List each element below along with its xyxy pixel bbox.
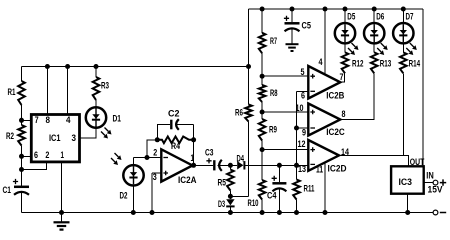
junction C5 top on rail [290, 7, 295, 12]
wire rail to D6 [373, 9, 375, 23]
junction left rail meets vertical [246, 64, 251, 69]
svg-text:12: 12 [298, 139, 306, 149]
wire D7 to R14 [402, 43, 404, 52]
wire R4 left up to C2 [157, 125, 170, 140]
wire IC2C output to R13 [340, 73, 374, 119]
resistor R1 [18, 81, 25, 105]
op-amp IC2C [308, 104, 340, 136]
wire top positive rail [249, 8, 423, 10]
svg-text:IC2D: IC2D [328, 164, 347, 174]
wire D1 to IC1 pin 3 [80, 128, 97, 138]
junction D6 on top rail [372, 7, 377, 12]
wire D6 to R13 [373, 43, 375, 52]
svg-text:D7: D7 [406, 12, 414, 22]
wire node to D4 [230, 164, 237, 166]
C3 + polarity mark [206, 158, 211, 163]
wire right rail down to IC3 [422, 9, 424, 166]
wire IC2B pin 4 to top rail [324, 9, 326, 74]
+ supply mark [440, 179, 446, 185]
IC2D + input mark [310, 147, 315, 152]
D5 emission arrows [348, 43, 359, 55]
junction pin 1 on bottom rail [59, 210, 64, 215]
svg-text:8: 8 [342, 109, 346, 119]
wire R2 to C1 [21, 146, 23, 187]
svg-text:5: 5 [301, 67, 305, 77]
IC3 box [391, 166, 424, 193]
IC2B - input mark [310, 90, 315, 92]
wire IC1 pin 6 [22, 155, 32, 157]
svg-text:7: 7 [35, 115, 39, 125]
svg-text:R5: R5 [218, 178, 227, 188]
wire rail to D7 [402, 9, 404, 23]
svg-text:R3: R3 [101, 81, 109, 91]
wire D5 to R12 [344, 43, 346, 52]
capacitor C4 [272, 183, 286, 191]
wire R11 to bottom rail [296, 200, 298, 213]
svg-text:R11: R11 [304, 184, 315, 194]
wire pin 3 to bottom rail [151, 173, 153, 213]
- supply mark [440, 212, 446, 214]
IC2D - input mark [310, 163, 315, 165]
D6 emission arrows [377, 43, 388, 55]
junction D5 on top rail [343, 7, 348, 12]
wire IC1 pin 8 to rail [46, 67, 48, 115]
wire node to R5 [229, 165, 231, 169]
svg-text:OUT: OUT [410, 157, 425, 167]
wire IC2C pin 9 input [297, 127, 309, 129]
junction R11 on bottom rail [294, 210, 299, 215]
+ terminal circle [433, 180, 438, 185]
wire R8 to R9 [261, 102, 263, 119]
svg-text:15V: 15V [428, 185, 443, 195]
D1 emission arrows [101, 128, 112, 139]
capacitor C2 [171, 119, 179, 130]
svg-text:R13: R13 [380, 59, 392, 69]
wire IC3 IN to + terminal [424, 182, 433, 184]
svg-text:D5: D5 [347, 12, 355, 22]
LED D1 infra-red emitting [86, 107, 106, 127]
resistor R11 [293, 180, 300, 200]
wire rail to C5 [291, 9, 293, 22]
resistor R5 [227, 170, 234, 191]
wire IC2B pin 6 input [297, 90, 309, 92]
LED D5 [335, 23, 355, 43]
junction R9/R10 node - IC2D pin 12 [260, 147, 265, 152]
wire D3 to bottom rail [229, 207, 231, 213]
svg-text:R12: R12 [352, 59, 364, 69]
wire node to C4 [278, 165, 280, 182]
svg-text:R14: R14 [409, 59, 421, 69]
resistor R3 [93, 77, 100, 100]
LED D6 [364, 23, 384, 43]
svg-text:R1: R1 [8, 87, 16, 97]
svg-text:D3: D3 [218, 199, 225, 209]
resistor R7 [259, 33, 266, 53]
svg-text:7: 7 [340, 72, 344, 82]
resistor R10 [259, 180, 266, 200]
diode D4 [237, 161, 244, 169]
wire IC2A pin 3 input [152, 172, 161, 174]
IC2C + input mark [310, 110, 315, 115]
svg-text:11: 11 [316, 165, 323, 175]
svg-text:R8: R8 [270, 88, 278, 98]
junction C3/D4/R5 node [228, 163, 233, 168]
LED D7 [393, 23, 413, 43]
junction pin 4 on rail [323, 7, 328, 12]
junction node with IC1 pin2 wire [19, 167, 24, 172]
wire inverting bus down [296, 91, 298, 179]
wire R7 to R8 [261, 53, 263, 85]
svg-text:D6: D6 [376, 12, 384, 22]
wire C3 to D4 node [218, 164, 231, 166]
svg-text:4: 4 [319, 57, 323, 67]
svg-text:13: 13 [298, 164, 306, 174]
wire R14 down to IC2D output [402, 73, 404, 155]
op-amp IC2D [308, 140, 339, 171]
ground symbol below C5 [286, 44, 299, 51]
junction IC2A output node [191, 163, 196, 168]
svg-text:R7: R7 [270, 36, 277, 46]
capacitor C5 [285, 23, 300, 31]
svg-text:1: 1 [61, 150, 65, 160]
svg-text:R9: R9 [269, 125, 277, 135]
C1 + polarity mark [13, 179, 18, 184]
D7 emission arrows [406, 43, 417, 55]
C5 + polarity mark [284, 16, 289, 21]
junction IC3 on bottom rail [405, 210, 410, 215]
wire rail to R3 [95, 67, 97, 78]
wire C4 to bottom rail [278, 190, 280, 213]
resistor R8 [259, 85, 266, 102]
wire R6 bottom to R5/D3 node [248, 122, 250, 197]
wire IC2C pin 10 input [262, 111, 308, 113]
op-amp IC2A [161, 149, 192, 181]
svg-text:C2: C2 [168, 109, 180, 119]
svg-text:D1: D1 [113, 114, 122, 124]
junction C4 top node [277, 163, 282, 168]
svg-text:10: 10 [296, 103, 304, 113]
svg-text:R2: R2 [6, 131, 14, 141]
svg-text:IC2C: IC2C [326, 127, 345, 137]
junction pin 8 on rail [45, 64, 50, 69]
wire left supply rail [22, 66, 249, 68]
junction pin 9 node [294, 126, 299, 131]
wire IC1 pin 2 to R2/C1 node [22, 162, 47, 170]
wire bottom negative rail [22, 212, 434, 214]
resistor R12 [342, 52, 349, 73]
svg-text:3: 3 [153, 172, 157, 182]
junction pin 3 on bottom rail [150, 210, 155, 215]
svg-text:3: 3 [72, 133, 77, 143]
svg-text:C1: C1 [3, 185, 12, 195]
svg-text:2: 2 [153, 148, 157, 158]
junction R8/R9 node - IC2C pin 10 [260, 110, 265, 115]
IC1 box [31, 115, 79, 162]
wire R10 to bottom rail [261, 200, 263, 213]
wire rail to D5 [344, 9, 346, 23]
wire IC2B pin 5 input [262, 75, 308, 77]
IC2C - input mark [310, 127, 315, 129]
junction D7 on top rail [401, 7, 406, 12]
resistor R6 [245, 105, 252, 122]
diode D3 [226, 199, 234, 206]
ground symbol [54, 213, 70, 230]
junction R4 left node [155, 137, 160, 142]
wire IC3 ground to bottom rail [407, 194, 409, 213]
junction R7 top on rail [260, 7, 265, 12]
C4 + polarity mark [272, 176, 277, 181]
wire R3 to D1 [95, 100, 97, 107]
wire feedback from pin2 up to R4 [147, 140, 157, 158]
wire R6 to R5/D3 node horizontal [230, 195, 248, 197]
junction R7/R8 node - IC2B pin 5 [260, 74, 265, 79]
svg-text:6: 6 [34, 150, 38, 160]
resistor R13 [371, 52, 378, 73]
junction R1/R2 node to IC1 pin7 [19, 118, 24, 123]
wire C2 right to R4 right [176, 124, 194, 126]
resistor R14 [400, 52, 407, 73]
resistor R4 [157, 137, 193, 144]
junction feedback node on pin 2 wire [145, 155, 150, 160]
svg-text:D4: D4 [237, 154, 245, 164]
wire rail to R7 [261, 9, 263, 33]
svg-text:IC2A: IC2A [178, 175, 197, 185]
capacitor C3 [214, 160, 222, 171]
wire IC2D pin 12 input [262, 149, 308, 151]
svg-text:6: 6 [301, 91, 305, 101]
wire IC2A pin 2 input [133, 157, 161, 159]
wire IC1 pin 1 to ground rail [61, 162, 63, 213]
junction R2/C1 node to IC1 pin6 [19, 154, 24, 159]
svg-text:R4: R4 [171, 141, 180, 151]
junction D3 on bottom rail [228, 210, 233, 215]
LED D2 photodiode receiver [123, 165, 143, 185]
wire IC2A output to C3 [193, 164, 214, 166]
wire D2 to bottom rail [132, 185, 134, 212]
wire R9 to R10 [261, 141, 263, 181]
svg-text:IC1: IC1 [49, 133, 61, 143]
IC2B + input mark [310, 74, 315, 79]
junction R5/D3 node [228, 194, 233, 199]
D2 incoming light arrows [111, 153, 122, 165]
svg-text:8: 8 [46, 115, 51, 125]
svg-text:IC2B: IC2B [326, 91, 344, 101]
junction C4 on bottom rail [277, 210, 282, 215]
svg-text:D2: D2 [120, 191, 128, 201]
junction pin 4 on rail [65, 64, 70, 69]
wire IC1 pin 7 [22, 119, 32, 121]
junction R3 top on rail [94, 64, 99, 69]
op-amp IC2B [308, 66, 340, 99]
wire IC2D pin 11 to bottom rail [324, 162, 326, 213]
resistor R9 [259, 119, 266, 141]
wire left branch of top rail down to R6 [248, 9, 250, 105]
svg-text:9: 9 [302, 128, 306, 138]
junction D2 on bottom rail [131, 210, 136, 215]
junction pin 11 on bottom rail [323, 210, 328, 215]
wire D4 to IC2D pin 13 / detector bus [244, 164, 308, 166]
- terminal circle [433, 210, 438, 215]
svg-text:R6: R6 [235, 108, 243, 118]
svg-text:4: 4 [66, 115, 71, 125]
svg-text:C3: C3 [205, 148, 214, 158]
junction bus joins pin 13 wire [294, 163, 299, 168]
wire IC2D output pin 14 to IC3 OUT [339, 156, 409, 167]
svg-text:C5: C5 [302, 21, 312, 31]
wire C1 to bottom rail [21, 192, 23, 213]
resistor R2 [18, 125, 25, 146]
svg-text:R10: R10 [248, 198, 259, 208]
junction R10 on bottom rail [260, 210, 265, 215]
junction R4 right node [191, 137, 196, 142]
capacitor C1 [14, 187, 29, 195]
wire R5 to D3 [229, 191, 231, 200]
IC2A - input mark [163, 157, 168, 159]
wire pin2 wire down to D2 [132, 158, 134, 166]
wire C5 to ground [291, 29, 293, 44]
wire IC2B output to R12 [340, 73, 344, 82]
wire IC1 pin 4 to rail [67, 67, 69, 115]
svg-text:IC3: IC3 [399, 177, 413, 187]
svg-text:C4: C4 [267, 191, 277, 201]
wire rail to R1 [21, 67, 23, 82]
svg-text:2: 2 [45, 150, 49, 160]
wire C2/R4 right down to output [193, 125, 195, 166]
svg-text:IN: IN [426, 171, 434, 181]
IC2A + input mark [163, 171, 168, 176]
wire R1 to R2 [21, 105, 23, 125]
